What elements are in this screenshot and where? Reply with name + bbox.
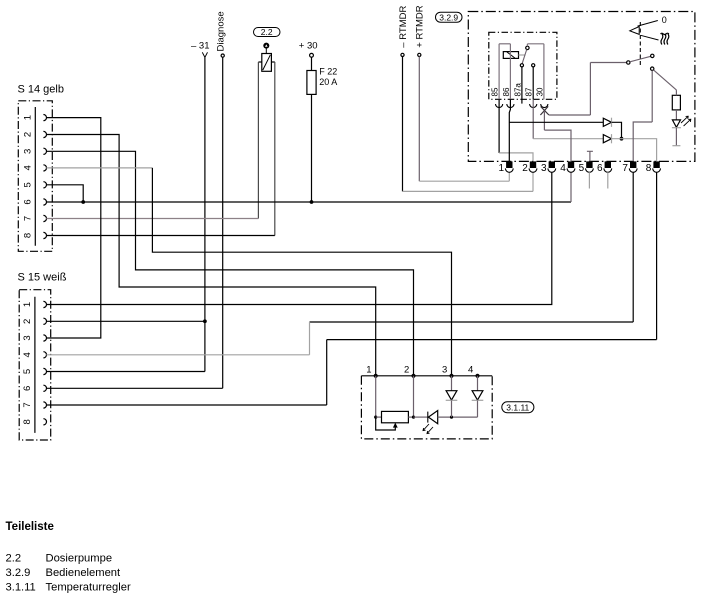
svg-text:Bedienelement: Bedienelement bbox=[46, 567, 122, 579]
LED D4 bbox=[428, 411, 437, 424]
U1 pin 3 bbox=[549, 161, 555, 168]
svg-text:1: 1 bbox=[499, 163, 505, 174]
wire +RTMDR down bbox=[418, 57, 420, 182]
svg-text:5: 5 bbox=[22, 369, 33, 374]
diode D5 cathode bar bbox=[446, 399, 458, 401]
S14 pin 6 socket bbox=[43, 199, 46, 205]
selector heat symbol bbox=[661, 34, 663, 45]
terminal +RTMDR bbox=[418, 53, 421, 56]
wire D6 to rail bbox=[477, 401, 479, 418]
relay coil top link bbox=[499, 43, 510, 45]
svg-text:+ 30: + 30 bbox=[299, 40, 318, 51]
wire to switch common contact bbox=[590, 62, 626, 64]
wire S14 pin7 to pump bbox=[46, 218, 258, 220]
wire D5 to rail bbox=[451, 401, 453, 418]
svg-text:87a: 87a bbox=[513, 83, 522, 97]
svg-text:1: 1 bbox=[366, 365, 371, 376]
diode D6 cathode bar bbox=[472, 399, 484, 401]
wire U1 pin1 drop bbox=[508, 172, 510, 181]
wire -RTMDR down bbox=[402, 57, 404, 192]
svg-text:3: 3 bbox=[22, 335, 33, 340]
LED D4 emission arrows bbox=[423, 424, 429, 431]
LED D4 cathode bar bbox=[427, 412, 429, 423]
svg-text:6: 6 bbox=[22, 386, 33, 391]
U1 pin5 internal terminator bbox=[587, 151, 593, 161]
svg-text:2: 2 bbox=[522, 163, 528, 174]
selector position line heat bbox=[641, 35, 659, 40]
U1 pin 1 socket bbox=[505, 168, 513, 172]
diode D5 bbox=[446, 391, 457, 400]
wire 30 to U1 pin4 bbox=[544, 130, 571, 161]
wire resistor to LED bbox=[675, 110, 677, 120]
svg-text:20 A: 20 A bbox=[319, 77, 337, 87]
wire S14 pin3 to R2 pin2 bbox=[46, 151, 413, 375]
S14 pin 4 socket bbox=[43, 165, 46, 171]
wire rail to LED D4 bbox=[414, 416, 428, 418]
crossover at terminal 30 bbox=[541, 106, 549, 115]
relay K1 enclosure bbox=[489, 32, 557, 99]
S15 pin 8 socket bbox=[43, 419, 46, 425]
wire +30 to fuse bbox=[311, 57, 313, 70]
diode D2 cathode bar bbox=[611, 134, 613, 143]
S15 pin 3 socket bbox=[43, 335, 46, 341]
R2 pin 2 bbox=[411, 374, 415, 378]
wire S14 pin1 to S15 pin3 bbox=[46, 118, 101, 338]
svg-text:Teileliste: Teileliste bbox=[6, 521, 54, 533]
relay terminal 87 wire bbox=[532, 67, 534, 99]
svg-text:2: 2 bbox=[404, 365, 409, 376]
terminal -RTMDR bbox=[401, 53, 404, 56]
svg-text:3.2.9: 3.2.9 bbox=[439, 12, 458, 22]
relay socket 86 bbox=[507, 104, 514, 108]
control unit 3.2.9 reference label bbox=[436, 12, 463, 22]
wire S14 pin4 to R2 pin3 bbox=[152, 168, 451, 376]
wire switch to resistor R1 bbox=[654, 70, 677, 90]
S14 pin 2 socket bbox=[43, 131, 46, 137]
relay lever bbox=[522, 50, 527, 64]
diode D1 bbox=[603, 118, 611, 126]
wire switch to U1 pin7 bbox=[633, 122, 652, 161]
S14 pin 7 socket bbox=[43, 215, 46, 221]
LED D3 cathode bar bbox=[672, 127, 681, 129]
net -31 arrowhead bbox=[202, 52, 207, 57]
wire -RTMDR to U1 pin2 bbox=[403, 190, 534, 192]
U1 pin5 stub bbox=[588, 172, 590, 188]
R2 pin 4 bbox=[475, 374, 479, 378]
svg-text:3: 3 bbox=[442, 365, 447, 376]
svg-text:3: 3 bbox=[541, 163, 547, 174]
svg-text:5: 5 bbox=[579, 163, 585, 174]
svg-text:7: 7 bbox=[22, 402, 33, 407]
resistor R1 bbox=[672, 95, 680, 110]
wire LED D4 to rail right bbox=[438, 416, 478, 418]
wire potentiometer left lead bbox=[376, 416, 382, 418]
svg-text:S 15 weiß: S 15 weiß bbox=[18, 272, 67, 284]
svg-text:F 22: F 22 bbox=[319, 66, 337, 76]
svg-text:6: 6 bbox=[597, 163, 603, 174]
thermostat 3.1.11 reference label bbox=[502, 402, 534, 413]
relay socket 87 bbox=[530, 104, 537, 108]
R2 pin4 drop bbox=[477, 376, 479, 391]
R2 pin3 drop bbox=[451, 376, 453, 391]
switch contact upper bbox=[651, 54, 654, 57]
svg-text:85: 85 bbox=[491, 87, 500, 96]
U1 pin 4 socket bbox=[567, 168, 575, 172]
svg-text:5: 5 bbox=[23, 182, 34, 187]
connector S15 body bbox=[19, 290, 51, 440]
U1 pin 2 bbox=[530, 161, 536, 168]
R2 pin 1 bbox=[374, 374, 378, 378]
relay contact 87a bbox=[520, 64, 523, 67]
U1 pin 1 bbox=[506, 161, 512, 168]
S15 pin 7 socket bbox=[43, 402, 46, 408]
pump solenoid diagonal bbox=[263, 55, 271, 70]
relay contact 87 bbox=[532, 64, 535, 67]
U1 pin 7 socket bbox=[629, 168, 637, 172]
svg-text:Dosierpumpe: Dosierpumpe bbox=[46, 553, 113, 565]
wire pump vent stem bbox=[265, 49, 267, 54]
wire 86 to U1 pin1 bbox=[509, 99, 510, 161]
svg-text:30: 30 bbox=[535, 87, 544, 96]
wire potentiometer right lead bbox=[408, 416, 413, 418]
S15 pin 2 socket bbox=[43, 318, 46, 324]
wire S14 pin4 horizontal bbox=[46, 167, 152, 169]
svg-text:2: 2 bbox=[22, 319, 33, 324]
switch contact lower bbox=[651, 67, 654, 70]
S15 pin 5 socket bbox=[43, 368, 46, 374]
svg-text:4: 4 bbox=[23, 165, 34, 170]
S15 pin 4 socket bbox=[43, 352, 46, 358]
svg-text:87: 87 bbox=[525, 87, 534, 96]
wire +30 bus bbox=[46, 201, 571, 203]
pump solenoid body bbox=[262, 54, 272, 72]
svg-text:0: 0 bbox=[662, 15, 667, 25]
wire -31 vertical bbox=[204, 57, 206, 371]
wire S14 pin5 bbox=[46, 185, 83, 202]
junction S14 pin5 to pin6 bbox=[81, 200, 85, 204]
wire 30 drop bbox=[543, 111, 545, 130]
pump collar left bbox=[258, 61, 261, 63]
svg-text:4: 4 bbox=[468, 365, 473, 376]
junction potentiometer left bbox=[374, 416, 377, 419]
S15 pin 1 socket bbox=[43, 301, 46, 307]
svg-text:4: 4 bbox=[560, 163, 566, 174]
wire U1 pin7 riser bbox=[632, 172, 634, 322]
U1 pin 5 bbox=[586, 161, 592, 168]
R2 pin 3 bbox=[449, 374, 453, 378]
relay socket 85 bbox=[496, 104, 503, 108]
relay coil diagonal bbox=[507, 52, 515, 58]
svg-text:+ RTMDR: + RTMDR bbox=[415, 5, 426, 47]
wire S14 pin2 to R2 pin1 bbox=[46, 135, 375, 376]
U1 pin 6 bbox=[605, 161, 611, 168]
wire lower contact drop bbox=[651, 70, 653, 122]
wire -31 to S15 pin5 bbox=[46, 371, 205, 373]
wire +RTMDR to U1 pin1 bbox=[419, 180, 509, 182]
wire wiper path bbox=[376, 417, 396, 430]
svg-text:86: 86 bbox=[502, 87, 511, 96]
switch common contact bbox=[627, 61, 630, 64]
wire U1 pin3 to S15 pin1 bbox=[46, 172, 552, 304]
U1 pin 2 socket bbox=[529, 168, 537, 172]
wire 85 to U1 pin2 bbox=[499, 153, 533, 161]
svg-text:4: 4 bbox=[22, 352, 33, 357]
control unit U1 enclosure bbox=[468, 12, 695, 162]
relay top link to terminal 30 bbox=[527, 43, 544, 45]
svg-text:– 31: – 31 bbox=[191, 40, 210, 51]
svg-text:8: 8 bbox=[22, 419, 33, 424]
selector knob bbox=[630, 27, 639, 35]
svg-text:1: 1 bbox=[22, 302, 33, 307]
relay coil bbox=[503, 52, 518, 59]
diode D2 bbox=[603, 135, 611, 143]
svg-text:2.2: 2.2 bbox=[6, 553, 22, 565]
relay terminal 87a wire bbox=[521, 67, 523, 104]
wire LED down bbox=[675, 128, 677, 146]
svg-text:3: 3 bbox=[23, 149, 34, 154]
wiper arrow bbox=[393, 423, 398, 428]
wire 87 to diode D2 bbox=[533, 138, 603, 140]
wire 85 drop bbox=[498, 99, 500, 153]
wire pin8 net horizontal bbox=[327, 339, 657, 341]
svg-text:– RTMDR: – RTMDR bbox=[398, 6, 409, 48]
wire U1 pin8 riser bbox=[656, 172, 658, 339]
junction +30 bus bbox=[310, 200, 314, 204]
S15 pin 6 socket bbox=[43, 385, 46, 391]
U1 pin6 stub bbox=[607, 172, 609, 188]
wire S15 pin7 riser bbox=[326, 340, 328, 405]
wire pump right lead bbox=[274, 62, 276, 236]
relay socket 30 bbox=[541, 104, 548, 108]
connector S14 body bbox=[18, 101, 52, 252]
pump collar right bbox=[271, 61, 274, 63]
selector position line 0 bbox=[638, 21, 658, 27]
fuse F22 bbox=[307, 71, 316, 95]
wire 86 to diode D1 bbox=[509, 121, 603, 123]
thermostat R2 enclosure bbox=[361, 376, 492, 439]
wire Diagnose to S15 pin6 bbox=[46, 387, 222, 389]
svg-text:3.2.9: 3.2.9 bbox=[6, 567, 31, 579]
wire fuse down bbox=[311, 94, 313, 202]
wire pin7 net horizontal bbox=[310, 321, 634, 323]
wire D1 cathode bbox=[612, 122, 622, 138]
terminator below LED bbox=[672, 145, 680, 147]
wire 87 drop bbox=[532, 99, 534, 138]
wire pump left lead bbox=[257, 62, 259, 219]
U1 pin 5 socket bbox=[586, 168, 594, 172]
svg-text:2.2: 2.2 bbox=[261, 27, 273, 37]
R2 top edge bbox=[361, 375, 492, 377]
pump 2.2 reference label bbox=[254, 28, 281, 37]
junction -31 / S15 pin2 bbox=[203, 319, 207, 323]
U1 pin 3 socket bbox=[548, 168, 556, 172]
svg-text:Temperaturregler: Temperaturregler bbox=[46, 581, 131, 593]
wire +30 bus riser to U1 pin4 bbox=[570, 172, 572, 202]
wire S15 pin7 bbox=[46, 404, 326, 406]
svg-text:2: 2 bbox=[23, 132, 34, 137]
U1 pin 6 socket bbox=[604, 168, 612, 172]
svg-text:3.1.11: 3.1.11 bbox=[6, 581, 36, 593]
svg-text:8: 8 bbox=[646, 163, 652, 174]
svg-text:3.1.11: 3.1.11 bbox=[506, 402, 529, 412]
wire -31 to S15 pin2 bbox=[46, 320, 205, 322]
connector S14 inner bar bbox=[34, 107, 36, 246]
wire Diagnose vertical bbox=[222, 57, 224, 388]
wire U1 pin2 drop bbox=[532, 172, 534, 191]
potentiometer P1 bbox=[382, 411, 409, 422]
relay pivot contact bbox=[526, 46, 529, 49]
wire switch riser bbox=[589, 63, 591, 116]
wire S14 pin8 to pump bbox=[46, 235, 274, 237]
R2 pin1 drop bbox=[375, 376, 377, 417]
connector S15 inner bar bbox=[34, 297, 36, 433]
diode D1 cathode bar bbox=[611, 118, 613, 127]
svg-text:7: 7 bbox=[622, 163, 628, 174]
relay terminal 85 wire bbox=[498, 44, 500, 100]
S14 pin 1 socket bbox=[43, 115, 46, 121]
LED D3 bbox=[672, 120, 680, 127]
terminal Diagnose bbox=[221, 54, 224, 57]
wire resistor top bbox=[675, 90, 677, 95]
LED D3 emission arrows bbox=[681, 116, 688, 123]
wire 30 to switch common bbox=[549, 114, 591, 116]
S14 pin 5 socket bbox=[43, 182, 46, 188]
diode D6 bbox=[472, 391, 483, 400]
selector linkage bbox=[639, 22, 641, 68]
S14 pin 8 socket bbox=[43, 232, 46, 238]
pump vent symbol bbox=[263, 43, 269, 49]
relay terminal 86 wire bbox=[509, 44, 511, 100]
junction diode cathodes bbox=[620, 137, 624, 141]
wire D2 cathode to U1 pin8 bbox=[612, 139, 657, 162]
switch lever bbox=[630, 56, 651, 62]
relay actuator link bbox=[519, 54, 526, 56]
U1 pin 8 socket bbox=[653, 168, 661, 172]
svg-text:Diagnose: Diagnose bbox=[216, 11, 227, 51]
relay terminal 30 wire bbox=[543, 44, 545, 100]
S14 pin 3 socket bbox=[43, 148, 46, 154]
relay pivot stem bbox=[526, 44, 528, 46]
svg-text:6: 6 bbox=[23, 199, 34, 204]
svg-text:1: 1 bbox=[23, 115, 34, 120]
svg-text:7: 7 bbox=[23, 216, 34, 221]
wire S15 pin4 riser bbox=[309, 322, 311, 355]
junction rail pin3 diode bbox=[450, 416, 453, 419]
terminal +30 bbox=[310, 53, 314, 57]
U1 pin 7 bbox=[630, 161, 636, 168]
svg-text:S 14 gelb: S 14 gelb bbox=[18, 84, 64, 96]
U1 pin 4 bbox=[568, 161, 574, 168]
U1 pin 8 bbox=[653, 161, 659, 168]
svg-text:8: 8 bbox=[23, 233, 34, 238]
wire S15 pin4 bbox=[46, 354, 309, 356]
R2 pin2 drop bbox=[413, 376, 415, 417]
junction pin2 rail bbox=[412, 416, 415, 419]
